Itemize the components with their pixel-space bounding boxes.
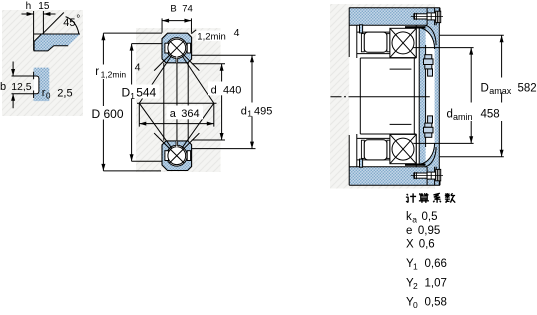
svg-text:e: e [406, 225, 412, 237]
svg-text:0,66: 0,66 [425, 258, 447, 270]
svg-text:°: ° [76, 14, 80, 25]
svg-text:D: D [92, 107, 101, 121]
svg-text:d: d [211, 84, 217, 96]
svg-text:2: 2 [413, 281, 418, 291]
svg-text:12,5: 12,5 [11, 81, 32, 93]
svg-text:4: 4 [234, 27, 240, 39]
svg-text:a: a [170, 108, 177, 120]
svg-text:15: 15 [38, 1, 50, 12]
svg-text:D: D [481, 83, 489, 95]
svg-text:1,2min: 1,2min [197, 31, 226, 42]
svg-text:74: 74 [182, 4, 193, 15]
svg-text:b: b [0, 81, 6, 93]
svg-text:h: h [26, 1, 32, 12]
svg-text:1,2min: 1,2min [101, 69, 127, 79]
svg-text:458: 458 [481, 109, 500, 121]
svg-text:600: 600 [104, 107, 124, 121]
svg-text:4: 4 [135, 62, 141, 74]
svg-text:364: 364 [181, 108, 199, 120]
svg-text:X: X [406, 239, 414, 251]
svg-text:d: d [241, 105, 247, 117]
svg-text:D: D [122, 86, 131, 100]
svg-text:0: 0 [46, 92, 51, 101]
svg-text:0,95: 0,95 [418, 225, 440, 237]
svg-text:1: 1 [413, 262, 418, 272]
svg-text:1,07: 1,07 [425, 278, 447, 290]
svg-text:0,5: 0,5 [422, 211, 438, 223]
svg-text:amax: amax [489, 86, 512, 96]
svg-text:45: 45 [63, 17, 75, 29]
svg-text:2,5: 2,5 [57, 88, 72, 100]
svg-text:a: a [412, 215, 417, 225]
svg-text:1: 1 [247, 109, 252, 119]
svg-text:495: 495 [254, 105, 272, 117]
svg-text:582: 582 [518, 83, 537, 95]
svg-text:d: d [447, 109, 453, 121]
svg-text:r: r [95, 66, 99, 78]
svg-text:1: 1 [130, 91, 135, 101]
svg-text:440: 440 [223, 84, 241, 96]
svg-text:amin: amin [453, 112, 473, 122]
svg-text:0,58: 0,58 [425, 297, 447, 309]
svg-text:B: B [170, 4, 176, 15]
svg-text:0: 0 [413, 300, 418, 310]
svg-text:0,6: 0,6 [419, 239, 435, 251]
svg-text:544: 544 [136, 86, 156, 100]
svg-text:k: k [406, 211, 412, 223]
